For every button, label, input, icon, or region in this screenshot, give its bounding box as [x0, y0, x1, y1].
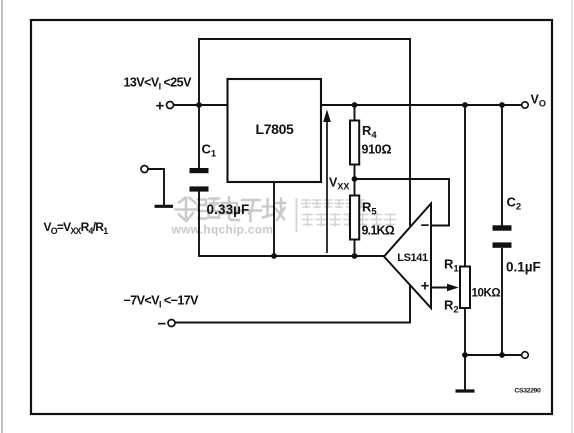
resistor R5 — [350, 179, 359, 256]
potentiometer R1/R2 10K — [460, 105, 470, 355]
terminal - input — [158, 316, 176, 333]
wire: feedback from Vxx node to inverting input — [355, 179, 450, 226]
svg-text:VO=VXXR4/R1: VO=VXXR4/R1 — [44, 220, 109, 236]
wire: C1 top lead — [198, 105, 200, 169]
svg-text:www.hqchip.com: www.hqchip.com — [171, 223, 274, 237]
wire: regulator ground pin — [273, 182, 275, 256]
svg-text:−7V<VI <−17V: −7V<VI <−17V — [124, 294, 200, 310]
watermark divider — [296, 198, 298, 232]
svg-text:910Ω: 910Ω — [362, 143, 392, 157]
op-amp U2 LS141 — [384, 204, 431, 309]
svg-text:R4: R4 — [362, 123, 377, 141]
svg-text:0.1µF: 0.1µF — [506, 260, 541, 275]
svg-text:13V<VI <25V: 13V<VI <25V — [124, 76, 193, 92]
svg-text:LS141: LS141 — [397, 252, 428, 264]
terminal + input — [156, 98, 174, 115]
regulator U1 L7805 — [228, 79, 322, 182]
ground bottom right — [456, 355, 475, 391]
wire: input line from + terminal to regulator — [174, 104, 228, 106]
wire: negative supply rail — [175, 285, 410, 323]
svg-text:−: − — [158, 316, 167, 333]
ground upper left terminal — [141, 166, 173, 207]
svg-text:9.1KΩ: 9.1KΩ — [362, 224, 395, 238]
node bottom left junction — [462, 352, 468, 358]
svg-text:CS32290: CS32290 — [515, 388, 541, 395]
node Vxx junction — [352, 176, 358, 182]
node pot top — [462, 102, 468, 108]
watermark hqchip center — [171, 223, 274, 237]
svg-text:C2: C2 — [507, 195, 522, 213]
wire: positive supply top rail — [199, 39, 410, 226]
svg-text:0.33µF: 0.33µF — [207, 202, 250, 217]
node R5 bottom — [352, 253, 358, 259]
wire: bottom output line — [465, 354, 521, 356]
wire: output line from regulator to Vo terminal — [321, 104, 522, 106]
svg-text:L7805: L7805 — [256, 121, 295, 137]
svg-text:VXX: VXX — [329, 176, 349, 192]
watermark big glyph blocks — [176, 198, 286, 222]
resistor R4 — [350, 105, 359, 179]
wire: common bottom rail to op-amp output — [198, 255, 384, 257]
terminal bottom right — [522, 352, 529, 359]
node C2 bottom — [499, 352, 505, 358]
wire: C1 bottom lead — [198, 192, 200, 257]
svg-text:R1: R1 — [444, 257, 459, 275]
node C2 top — [499, 102, 505, 108]
node R4 top — [352, 102, 358, 108]
terminal Vo — [522, 102, 528, 108]
svg-text:C1: C1 — [202, 142, 217, 160]
capacitor C2 — [493, 105, 512, 355]
svg-text:R2: R2 — [444, 298, 459, 316]
svg-text:+: + — [421, 278, 430, 295]
node regulator gnd junction — [271, 253, 277, 259]
svg-text:VO: VO — [531, 93, 546, 109]
svg-text:−: − — [421, 217, 430, 234]
svg-text:+: + — [156, 98, 165, 115]
watermark right column — [301, 200, 396, 227]
capacitor C1 — [190, 168, 209, 192]
svg-text:10KΩ: 10KΩ — [472, 288, 501, 300]
wire: non-inverting input arrow to wiper — [431, 284, 459, 291]
Vxx measure arrow — [323, 110, 331, 254]
node input junction — [196, 102, 202, 108]
